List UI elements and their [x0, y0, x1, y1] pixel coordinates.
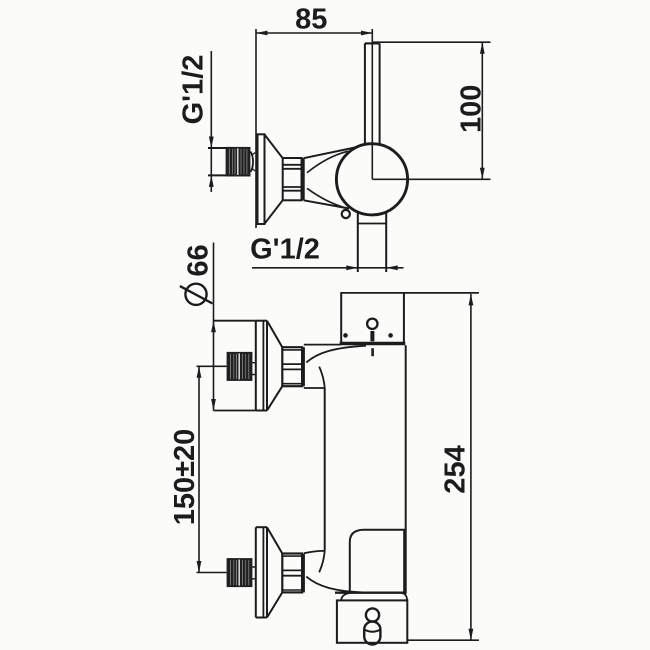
svg-text:100: 100: [455, 85, 487, 133]
svg-text:66: 66: [183, 244, 215, 276]
svg-text:254: 254: [440, 445, 472, 493]
svg-text:85: 85: [295, 4, 327, 36]
svg-text:150±20: 150±20: [169, 429, 201, 526]
svg-text:G'1/2: G'1/2: [250, 234, 320, 266]
svg-text:G'1/2: G'1/2: [177, 55, 209, 125]
